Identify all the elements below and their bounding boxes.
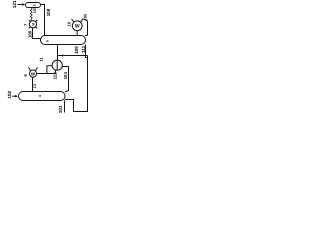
svg-text:6: 6 [23,74,28,77]
svg-text:13: 13 [33,84,37,88]
line vessel 9 bottom to pump 12 [57,45,59,61]
svg-text:W: W [31,71,36,76]
pump right outlet line (stream 104) down to bottom vessel [62,67,68,92]
vessel 1 (top horizontal drum) [26,3,41,8]
vessel 9 (large horizontal drum) [41,36,86,45]
svg-text:112: 112 [53,72,58,80]
right-side return line down [65,56,88,112]
stream 102 feed line [12,95,18,97]
motor 10 (circle with W) on vessel 9 [72,19,83,36]
svg-text:109: 109 [74,46,79,54]
svg-text:9: 9 [46,40,50,42]
svg-text:1: 1 [32,4,36,6]
pump 12 (circle with vertical diameter) [52,60,62,70]
stream 121 feed line with arrowhead [17,3,25,5]
heater header line (pump to heater 6) [37,73,56,75]
pump left bypass line [47,66,52,74]
vessel 9 bottom right outlet [86,45,88,58]
pump discharge line with arrowhead to right side [58,54,88,60]
svg-text:100: 100 [27,30,32,38]
svg-text:7: 7 [23,23,28,26]
stream 100 line (blower 7 to vessel 9 left inlet) [33,28,41,39]
svg-text:102: 102 [7,90,12,98]
svg-text:4: 4 [38,95,42,97]
svg-text:104: 104 [63,72,68,80]
svg-text:M: M [32,23,36,26]
svg-text:108: 108 [46,8,51,16]
heater outlet down into bottom vessel [32,77,34,91]
svg-text:10: 10 [66,21,71,26]
svg-text:121: 121 [12,0,17,8]
blower 7 (circle with corner ticks and rotor mark) [29,20,37,28]
svg-text:W: W [75,24,80,30]
agitator shaft zigzag from vessel 1 to blower 7 [30,8,32,21]
pump bottom stub to heater header [55,70,57,73]
stream 101 outlet line [64,100,66,112]
svg-text:103: 103 [33,7,37,13]
line from motor lead down to vessel 9 right end [83,19,88,36]
stream 108 line (vessel 1 outlet down to vessel 9) [41,5,45,36]
svg-text:101: 101 [58,105,63,113]
vessel 4 (bottom horizontal drum) [19,92,66,101]
heater 6 (circle with W element) [29,67,38,77]
svg-text:11: 11 [38,56,43,61]
